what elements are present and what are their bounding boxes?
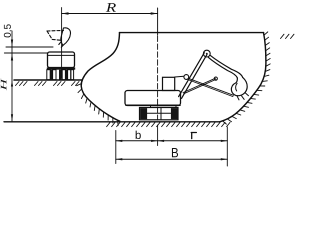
pit bottom line	[4, 121, 220, 123]
dimension mid extension line	[157, 125, 159, 146]
hatch along right wall outside	[223, 32, 271, 124]
dumping bucket teeth	[61, 46, 63, 48]
truck chassis band	[47, 68, 75, 70]
turntable pedestal	[151, 106, 177, 108]
dimension R line	[62, 13, 158, 15]
truck ground line	[14, 79, 82, 81]
0,5 lower arrow (up)	[11, 53, 13, 61]
hatch top right corner	[281, 34, 295, 38]
pendant link from cab to saddle	[175, 75, 184, 78]
bail arm from sheave to bucket	[208, 55, 242, 78]
hatch along left wall outside	[77, 84, 119, 126]
dimension right extension line	[226, 127, 228, 166]
R right arrow	[151, 12, 158, 14]
excavator body	[125, 91, 181, 106]
dipper stick to bucket bottom	[188, 78, 234, 96]
excavator body bottom line	[126, 104, 180, 106]
R left arrow	[62, 12, 69, 14]
bucket	[231, 77, 247, 95]
saddle pivot circle	[184, 75, 189, 80]
dimension г line	[158, 140, 228, 142]
label г	[191, 133, 196, 139]
bucket lower level line (line1)	[6, 46, 53, 48]
stick knuckle joint	[214, 77, 217, 80]
label B	[172, 148, 178, 157]
truck center axis line	[61, 8, 63, 78]
pit right wall	[220, 33, 266, 122]
label 0,5 (rotated)	[4, 24, 12, 37]
truck wheels group right	[62, 70, 73, 80]
truck top level line (line2)	[4, 52, 48, 54]
dimension b line	[116, 140, 158, 142]
bucket teeth	[242, 96, 245, 100]
dimension b extension line left	[115, 131, 117, 164]
excavator tracks	[140, 108, 179, 120]
dumping bucket phantom (dashed)	[47, 29, 64, 32]
H dimension arrows	[11, 80, 13, 87]
dimension B line	[116, 158, 228, 160]
crowd link to bail knuckle	[183, 78, 216, 94]
boom tip sheave	[203, 50, 210, 57]
hatch under pit bottom	[107, 122, 230, 126]
truck bed rim line	[48, 54, 75, 56]
truck axle shadow	[59, 70, 62, 80]
truck wheels group left	[47, 70, 56, 80]
label H (rotated)	[1, 78, 7, 90]
label R	[106, 3, 116, 12]
bucket inner lip curl	[236, 83, 237, 91]
boom	[179, 53, 207, 99]
machine center line (dash-dot)	[157, 8, 159, 35]
dimension 0,5 + H shared extension vertical	[11, 31, 13, 122]
ground surface top line	[120, 32, 264, 34]
0,5 upper arrow (down)	[11, 40, 13, 48]
truck dump bed	[48, 52, 75, 68]
label b	[136, 131, 141, 139]
hatch under truck ground	[16, 82, 80, 86]
excavator cab	[163, 77, 175, 90]
dumping bucket solid wall	[61, 28, 71, 46]
pit left wall (excavation face)	[81, 33, 120, 122]
